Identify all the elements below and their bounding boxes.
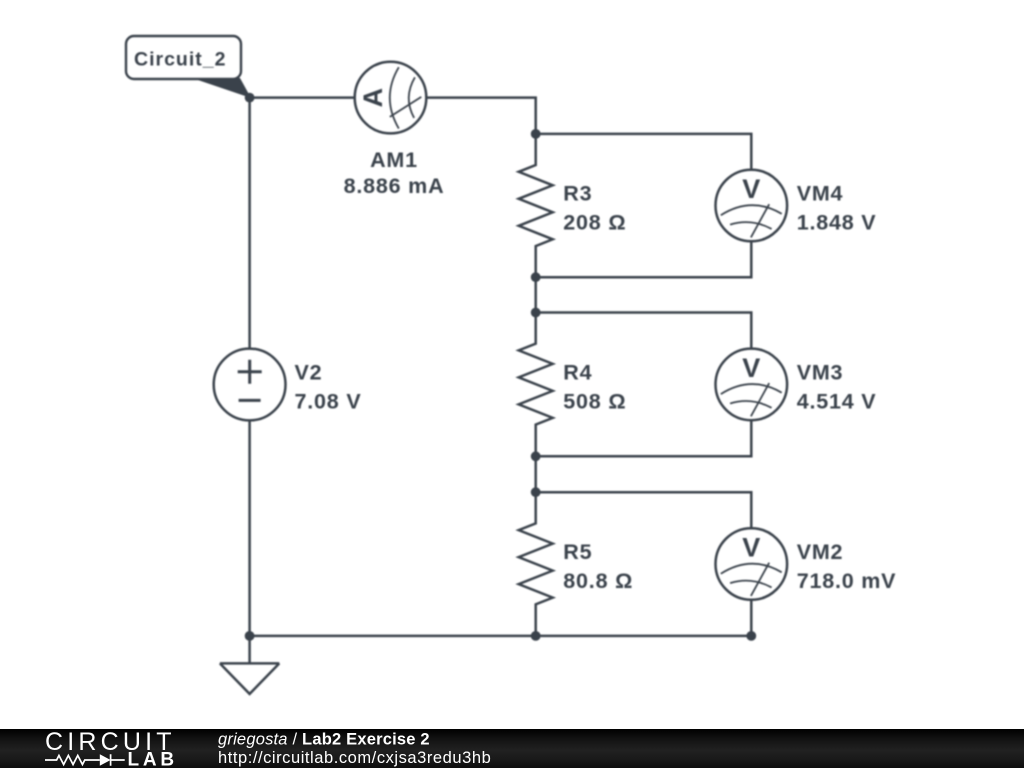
- junction VM2 bottom rail: [746, 631, 756, 641]
- voltage source V2: [214, 349, 286, 421]
- junction ground: [245, 631, 255, 641]
- junction R3 top: [531, 129, 541, 139]
- resistor R5: [519, 492, 553, 636]
- wire bottom rail: [250, 635, 752, 638]
- wire ground stub: [248, 636, 251, 664]
- junction R5 bottom rail: [531, 631, 541, 641]
- footer bar: [0, 729, 1024, 768]
- wire VM3 bottom to R4 bottom junction: [536, 420, 752, 456]
- voltmeter VM4: [716, 170, 788, 242]
- wire VM2 bottom to bottom rail: [750, 600, 753, 636]
- logo resistor squiggle: [45, 756, 100, 765]
- resistor R3: [519, 134, 553, 277]
- wire ammeter to R3 top corner: [426, 98, 535, 134]
- wire VM4 bottom to R3 bottom junction: [536, 241, 752, 277]
- voltmeter VM2: [716, 528, 788, 600]
- voltmeter VM3: [716, 349, 788, 421]
- wire R3 top junction to VM4 top: [536, 134, 752, 170]
- wire left rail upper (node A to V2 plus): [248, 98, 251, 349]
- junction node A: [245, 93, 255, 103]
- wire junction R4-bottom to R5-top: [534, 456, 537, 492]
- net label Circuit_2: [126, 36, 251, 98]
- wire junction R3-bottom to R4-top: [534, 277, 537, 312]
- ammeter AM1: [355, 62, 427, 134]
- wire left rail lower (V2 minus to bottom rail): [248, 420, 251, 636]
- junction R4 bottom: [531, 451, 541, 461]
- logo diode symbol: [100, 754, 111, 765]
- wire R5 top junction to VM2 top: [536, 492, 752, 528]
- wire top-left to ammeter: [250, 96, 355, 99]
- resistor R4: [519, 313, 553, 457]
- junction R5 top: [531, 487, 541, 497]
- junction R4 top: [531, 308, 541, 318]
- junction R3 bottom: [531, 272, 541, 282]
- svg-text:LAB: LAB: [128, 750, 178, 769]
- ground: [220, 663, 279, 694]
- svg-text:http://circuitlab.com/cxjsa3re: http://circuitlab.com/cxjsa3redu3hb: [218, 749, 491, 767]
- wire R4 top junction to VM3 top: [536, 313, 752, 349]
- svg-text:griegosta / Lab2 Exercise 2: griegosta / Lab2 Exercise 2: [218, 731, 430, 749]
